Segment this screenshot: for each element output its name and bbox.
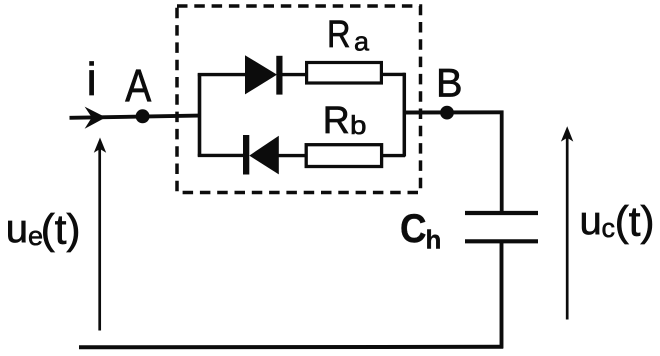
svg-text:A: A xyxy=(125,60,151,111)
resistor Ra (rectangular body) xyxy=(307,63,382,84)
capacitor Ch bottom plate xyxy=(465,239,538,243)
svg-text:(t): (t) xyxy=(615,198,655,245)
diode Da triangle (conducts to the right) xyxy=(245,55,277,94)
resistor Rb (rectangular body) xyxy=(306,145,381,167)
wire: right junction bar joining both branches xyxy=(403,73,407,157)
svg-text:b: b xyxy=(350,110,367,140)
wire: bottom branch, bar to diode Db cathode xyxy=(198,154,245,157)
svg-text:B: B xyxy=(436,62,463,106)
node A (junction dot) xyxy=(136,109,150,123)
capacitor Ch top plate xyxy=(465,211,538,215)
wire: input lead from left through node A to network xyxy=(70,116,200,118)
diode Db triangle (conducts to the left) xyxy=(249,136,278,175)
diode Da cathode bar xyxy=(276,56,282,95)
wire: right bar through node B to capacitor top corner xyxy=(404,110,504,114)
wire: top branch, bar to diode Da anode xyxy=(198,73,246,76)
wire: bottom branch, resistor Rb to right bar xyxy=(381,154,405,157)
voltage arrow ue shaft xyxy=(98,147,101,331)
current arrow i (on input wire) xyxy=(85,107,106,129)
wire: bottom return wire xyxy=(79,345,503,350)
dashed enclosure box around diode-resistor network xyxy=(177,6,421,193)
svg-text:R: R xyxy=(323,100,350,142)
svg-text:u: u xyxy=(580,199,602,243)
wire: bottom branch, diode Db to resistor Rb xyxy=(278,154,307,157)
wire: left junction bar joining both branches xyxy=(198,73,202,156)
svg-text:u: u xyxy=(6,207,28,251)
svg-text:a: a xyxy=(354,27,370,57)
wire: vertical drop from corner to capacitor Ch top plate xyxy=(500,111,504,213)
svg-text:(t): (t) xyxy=(41,206,81,253)
wire: top branch, diode Da to resistor Ra xyxy=(281,73,307,76)
svg-text:h: h xyxy=(426,224,442,254)
voltage arrow uc shaft xyxy=(566,136,569,320)
svg-text:R: R xyxy=(327,14,351,56)
svg-text:i: i xyxy=(87,53,97,105)
wire: capacitor Ch bottom plate down to return wire xyxy=(500,242,504,349)
svg-text:c: c xyxy=(602,213,616,243)
voltage arrow uc head xyxy=(561,126,573,141)
diode Db cathode bar xyxy=(243,135,249,175)
wire: top branch, resistor Ra to right bar xyxy=(381,73,405,76)
node B (junction dot) xyxy=(440,106,454,120)
svg-text:C: C xyxy=(400,207,427,251)
voltage arrow ue head xyxy=(94,138,106,153)
